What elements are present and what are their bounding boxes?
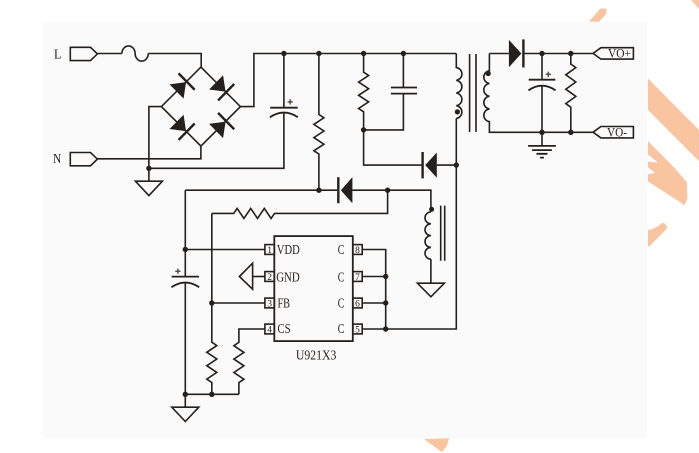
label C pin7 — [338, 269, 345, 284]
wire to aux winding — [388, 190, 431, 212]
wire drain — [386, 118, 457, 329]
svg-text:C: C — [338, 242, 345, 257]
plus sign output cap — [546, 72, 551, 77]
node bus pin5 — [383, 326, 388, 331]
terminal L — [54, 47, 97, 62]
node bulk cap top — [281, 51, 286, 56]
fuse F1 — [122, 46, 148, 61]
label GND — [276, 269, 300, 284]
svg-text:VDD: VDD — [277, 242, 300, 257]
node bus pin7 — [383, 274, 388, 279]
schematic canvas background — [43, 22, 647, 438]
resistor snubber — [359, 54, 369, 130]
capacitor output electrolytic — [528, 54, 555, 133]
wire bottom rail — [185, 393, 239, 395]
wire fb vertical — [211, 213, 213, 303]
resistor cs — [234, 329, 265, 394]
wire pin6 stub — [362, 302, 386, 304]
pin 5 — [353, 324, 362, 335]
wire return rail to bulk cap — [149, 113, 284, 168]
svg-text:7: 7 — [355, 273, 360, 283]
svg-text:5: 5 — [355, 325, 360, 335]
node drain clamp — [454, 162, 459, 167]
plus sign vdd cap — [175, 269, 180, 274]
diode vdd — [338, 177, 387, 203]
phase dot aux — [429, 207, 434, 212]
capacitor bulk electrolytic — [270, 54, 298, 118]
wire secondary to output diode — [489, 53, 509, 55]
wire bridge left to return rail — [149, 107, 162, 169]
watermark stroke top — [589, 9, 607, 22]
diode clamp — [423, 152, 457, 178]
svg-text:L: L — [54, 47, 61, 62]
node output cap top — [539, 51, 544, 56]
capacitor vdd — [171, 250, 199, 395]
pin 3 — [265, 298, 274, 309]
node return junction — [146, 166, 151, 171]
node load resistor bottom — [568, 130, 573, 135]
wire pin7 stub — [362, 276, 386, 278]
wire vdd corner — [184, 190, 186, 249]
svg-text:VO-: VO- — [607, 124, 627, 139]
aux winding — [425, 212, 431, 259]
terminal VO+ — [593, 45, 633, 60]
node snubber R top — [361, 51, 366, 56]
svg-text:C: C — [338, 321, 345, 336]
svg-text:6: 6 — [355, 299, 360, 309]
label U921X3 — [296, 349, 337, 364]
capacitor snubber — [364, 54, 417, 130]
node snubber C top — [401, 51, 406, 56]
terminal VO- — [593, 124, 633, 139]
svg-text:4: 4 — [267, 325, 272, 335]
bridge rectifier BR1 — [161, 67, 240, 146]
plus sign bulk cap — [288, 99, 293, 104]
ground aux — [417, 259, 444, 297]
node bus pin6 — [383, 300, 388, 305]
ground input — [135, 168, 162, 195]
wire snubber to clamp diode — [364, 130, 423, 165]
watermark corner top-right — [691, 0, 699, 9]
transformer secondary winding — [484, 54, 593, 133]
svg-text:1: 1 — [267, 246, 272, 256]
label FB — [278, 295, 291, 310]
pin 2 — [265, 272, 274, 283]
wire pin8 to bus — [362, 250, 386, 330]
wire bridge right to top rail — [240, 54, 456, 107]
svg-text:C: C — [338, 269, 345, 284]
svg-text:U921X3: U921X3 — [296, 349, 337, 364]
node snubber bottom — [361, 127, 366, 132]
phase dot secondary — [486, 71, 491, 76]
node vdd — [183, 247, 188, 252]
svg-text:N: N — [53, 151, 61, 166]
watermark triangle bottom — [424, 438, 449, 452]
svg-text:2: 2 — [267, 273, 272, 283]
wire fuse to bridge top — [148, 54, 201, 68]
resistor vdd feed horizontal — [212, 190, 388, 218]
watermark claw — [648, 141, 687, 206]
transformer core — [470, 54, 476, 132]
pin 7 — [353, 272, 362, 283]
node output cap bottom — [539, 130, 544, 135]
label VDD — [277, 242, 300, 257]
IC U1 body — [274, 236, 353, 341]
wire fb to pin3 — [212, 302, 265, 304]
aux core — [441, 206, 445, 261]
resistor fb lower — [207, 303, 217, 394]
svg-text:CS: CS — [278, 321, 291, 336]
ground earth output — [528, 132, 556, 157]
resistor startup — [314, 54, 324, 191]
transformer primary winding — [456, 54, 462, 119]
node ground rail mid — [209, 392, 214, 397]
node startup resistor top — [316, 51, 321, 56]
pin 8 — [353, 245, 362, 256]
svg-text:FB: FB — [278, 295, 291, 310]
node load resistor top — [568, 51, 573, 56]
gnd flag pin2 — [239, 263, 265, 289]
svg-text:VO+: VO+ — [608, 45, 631, 60]
resistor load — [566, 54, 576, 133]
watermark band right — [648, 79, 699, 162]
label CS — [278, 321, 291, 336]
label C pin6 — [338, 295, 345, 310]
wire L to fuse — [97, 53, 122, 55]
wire pin5 stub — [362, 328, 386, 330]
pin 1 — [265, 245, 274, 256]
svg-text:3: 3 — [267, 299, 272, 309]
ground signal bottom — [172, 394, 199, 421]
svg-text:GND: GND — [276, 269, 300, 284]
wire N to bridge bottom — [97, 146, 200, 159]
wire vdd rail — [185, 189, 337, 191]
svg-text:8: 8 — [355, 246, 360, 256]
pin 6 — [353, 298, 362, 309]
node ground rail left — [183, 392, 188, 397]
svg-text:C: C — [338, 295, 345, 310]
node vdd diode junction — [385, 188, 390, 193]
node fb — [209, 300, 214, 305]
node startup resistor bottom — [316, 188, 321, 193]
watermark hook — [648, 223, 668, 247]
phase dot primary — [455, 109, 460, 114]
diode output — [509, 39, 593, 67]
pin 4 — [265, 324, 274, 335]
label C pin8 — [338, 242, 345, 257]
label C pin5 — [338, 321, 345, 336]
wire vdd to pin1 — [185, 249, 265, 251]
terminal N — [53, 151, 97, 166]
